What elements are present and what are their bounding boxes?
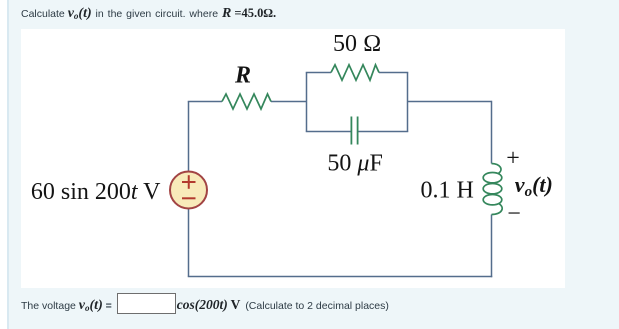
parallel box left vertical — [306, 73, 308, 132]
svg-text:60 sin 200t V: 60 sin 200t V — [31, 179, 161, 205]
wire: left vertical below source — [188, 209, 190, 277]
wire: resistor R to parallel box — [271, 101, 307, 103]
svg-text:R: R — [234, 63, 251, 89]
svg-text:+: + — [506, 145, 520, 171]
wire: left vertical (top-left corner down to source top) — [188, 102, 190, 172]
inductor coil — [483, 164, 502, 215]
parallel box top branch left lead — [306, 72, 331, 74]
svg-text:−: − — [507, 201, 521, 227]
parallel box top branch right lead — [379, 72, 408, 74]
svg-text:50 μF: 50 μF — [327, 150, 382, 176]
wire: right vertical above inductor — [491, 101, 493, 164]
resistor 50 ohm zigzag — [331, 65, 379, 80]
voltage source circle — [170, 172, 207, 209]
svg-text:50 Ω: 50 Ω — [333, 31, 381, 57]
parallel box right vertical — [407, 73, 409, 132]
svg-text:0.1 H: 0.1 H — [421, 178, 474, 204]
parallel box bottom branch right lead from capacitor — [358, 131, 408, 133]
answer line — [21, 293, 389, 314]
parallel box bottom branch left lead to capacitor — [306, 131, 351, 133]
capacitor plates — [351, 117, 357, 145]
wire: right vertical below inductor — [491, 215, 493, 278]
circuit image white area — [21, 29, 565, 288]
voltage source plus — [182, 175, 196, 189]
svg-text:vo(t): vo(t) — [515, 172, 553, 200]
title text — [21, 7, 276, 21]
wire: box to right corner — [408, 101, 492, 103]
voltage source minus — [182, 197, 196, 199]
wire: bottom horizontal — [188, 276, 493, 278]
wire: top horizontal to resistor R — [188, 101, 222, 103]
resistor R zigzag — [222, 94, 271, 109]
